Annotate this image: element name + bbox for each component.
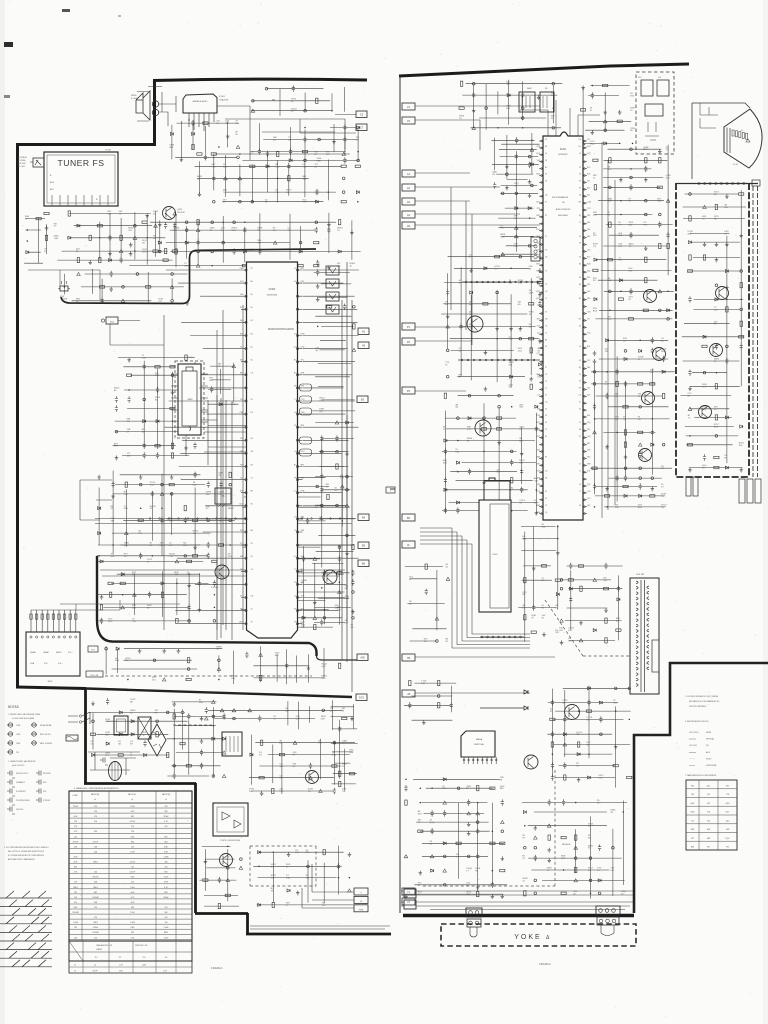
junction [211,265,213,267]
ground [614,745,618,749]
junction [616,432,618,434]
svg-text:4T6: 4T6 [587,470,590,472]
wire [300,115,356,134]
wire [243,123,359,162]
svg-text:POLIESTER: POLIESTER [16,791,26,793]
diode [443,842,446,845]
resistor [293,494,295,499]
capacitor [173,773,176,779]
svg-text:04: 04 [545,422,547,424]
diode [119,733,122,736]
wire [251,87,344,116]
svg-text:FIGURA 2: FIGURA 2 [539,963,551,966]
junction [606,371,608,373]
svg-text:SAIDA DE AUDIO: SAIDA DE AUDIO [192,100,208,103]
svg-text:R801: R801 [73,887,77,889]
resistor [497,428,502,430]
junction [600,733,603,736]
junction [553,107,555,109]
junction [437,695,440,698]
junction [501,192,504,195]
svg-text:V13: V13 [587,360,590,362]
capacitor [658,221,661,227]
junction [593,371,596,374]
speaker terminals [152,101,158,107]
resistor [497,417,502,419]
ground [129,243,133,247]
resistor [272,902,274,907]
junction [176,583,178,585]
connector A4 [402,211,415,218]
junction [609,290,612,293]
svg-text:08: 08 [579,174,581,176]
junction [353,306,356,309]
capacitor [343,136,346,142]
diode [606,339,609,342]
resistor [551,742,553,747]
capacitor [191,120,194,126]
capacitor [688,296,691,302]
svg-text:VALOR (L): VALOR (L) [128,793,137,796]
resistor [568,579,573,581]
junction [612,846,615,849]
capacitor [688,370,691,376]
resistor [170,407,175,409]
diode [639,349,642,352]
junction [667,318,670,321]
svg-text:PTC: PTC [638,77,642,79]
connector A3 [402,198,415,205]
ground [538,268,542,272]
diode [617,598,620,601]
svg-text:1N4148: 1N4148 [92,932,98,934]
junction [436,640,439,643]
capacitor [551,774,554,780]
keyboard pull resistors [30,614,32,619]
ground [180,157,184,161]
tuner TU101 inner [47,155,115,203]
junction [726,299,728,301]
svg-text:B04: B04 [587,346,590,348]
capacitor [258,148,261,154]
diode [468,417,471,420]
capacitor [351,579,354,585]
svg-text:B75: B75 [587,167,590,169]
resistor [155,366,160,368]
svg-text:B9: B9 [579,298,581,300]
warning triangle [338,590,342,593]
warning triangle [658,290,662,293]
svg-text:C5R: C5R [142,358,147,360]
diode [593,629,596,632]
capacitor [212,175,215,181]
svg-text:T92: T92 [726,847,729,849]
junction [171,273,174,276]
svg-text:121: 121 [537,332,540,334]
junction [338,546,341,549]
wire [234,646,325,684]
capacitor [598,845,601,851]
svg-text:1DK: 1DK [301,556,306,558]
diode [563,733,566,736]
svg-text:uF: uF [94,799,96,801]
ground [307,666,311,670]
junction [651,477,654,480]
svg-text:pF/uF V=VOLTS: pF/uF V=VOLTS [12,765,25,767]
left board outline top [153,79,367,80]
warning triangle [273,241,277,244]
junction [227,846,229,848]
svg-text:APROVADOS PELO FABRICANTE: APROVADOS PELO FABRICANTE [8,858,35,861]
svg-text:V1: V1 [74,965,76,967]
svg-text:V6B: V6B [506,108,511,110]
capacitor [184,517,187,523]
junction [492,870,494,872]
warning triangle [345,504,349,507]
warning triangle [313,557,317,560]
diode [470,291,473,294]
resistor [477,786,479,791]
warning triangle [154,224,158,227]
capacitor [101,298,104,304]
capacitor [456,507,459,513]
junction [594,506,596,508]
svg-text:K5V: K5V [613,703,618,705]
capacitor [629,232,632,238]
resistor [667,243,669,248]
ground [619,178,623,182]
junction [237,156,240,159]
svg-text:A05: A05 [360,657,365,660]
svg-text:8K2: 8K2 [164,841,167,843]
resistor [109,592,111,597]
resistor [578,565,583,567]
ground [170,475,174,479]
junction [352,617,355,620]
diode [116,647,119,650]
resistor [739,336,744,338]
svg-text:QCR: QCR [142,252,147,254]
diode [619,279,622,282]
wire [317,656,358,660]
diode [109,259,112,262]
right board outline top [399,64,689,76]
svg-text:7Q: 7Q [588,848,591,850]
svg-text:DEFLEXAO: DEFLEXAO [558,214,569,217]
svg-text:7Q: 7Q [661,507,664,509]
warning triangle [222,751,226,754]
ground [725,242,729,246]
capacitor [258,715,261,721]
capacitor [139,553,142,559]
bus dotted 2 [458,359,540,361]
resistor [194,429,196,434]
svg-text:V1: V1 [741,130,743,132]
wire [590,340,674,507]
junction [92,720,95,723]
keyboard S302 box [26,632,80,676]
svg-text:CERAMICO: CERAMICO [16,781,26,784]
ground [509,327,513,331]
capacitor [320,619,323,625]
junction [420,802,422,804]
ground [484,387,488,391]
junction [27,240,29,242]
resistor [529,303,534,305]
svg-text:7. PARA VERSOES DE COMPONENTES: 7. PARA VERSOES DE COMPONENTES [685,774,717,777]
connector P3 [402,387,415,394]
svg-text:3. OS COMPONENTES IDENTIFICADO: 3. OS COMPONENTES IDENTIFICADOS PELO SIM… [4,846,49,849]
svg-text:R801: R801 [93,862,97,864]
junction [153,659,156,662]
margin tick [4,42,13,47]
svg-text:K=1000 OHMS M=1M OHMS: K=1000 OHMS M=1M OHMS [12,718,35,720]
warning triangle [348,889,352,892]
svg-text:114: 114 [707,794,710,796]
capacitor [264,606,267,612]
svg-text:CDC: CDC [239,504,244,506]
warning triangle [530,148,534,151]
ground [715,258,719,262]
wire bus B [86,689,352,698]
junction [115,430,118,433]
wire [80,480,112,520]
diode [577,753,580,756]
wire [522,801,627,899]
ground [644,246,648,250]
svg-text:785: 785 [537,284,540,286]
wire [148,87,176,127]
junction [321,504,324,507]
junction [127,679,128,681]
svg-text:S302: S302 [48,681,54,683]
resistor [339,781,341,786]
capacitor [444,448,447,454]
svg-text:R63: R63 [691,847,694,849]
diode [444,488,447,491]
ground [111,494,115,498]
svg-text:SER MEDIDOS COM O APARELHO NO: SER MEDIDOS COM O APARELHO NO [689,700,720,703]
diode [624,358,627,361]
wire [241,545,345,628]
svg-text:06B: 06B [509,364,513,366]
svg-text:6. IDENTIFICACAO DOS FIOS: 6. IDENTIFICACAO DOS FIOS [685,720,709,723]
key switch S303 [326,292,339,301]
junction [715,284,718,287]
resistor [662,393,664,398]
svg-text:9RC: 9RC [607,169,612,171]
resistor [481,428,486,430]
junction [105,647,108,650]
ground [193,545,197,549]
svg-text:VKQ: VKQ [590,143,595,145]
capacitor [260,494,263,500]
junction [194,420,197,423]
resistor [657,186,662,188]
svg-text:V2: V2 [579,484,581,486]
svg-text:330: 330 [131,932,134,934]
junction [173,765,176,768]
svg-text:SAO CRITICOS. DEVEM SER SUBSTI: SAO CRITICOS. DEVEM SER SUBSTITUIDOS [8,850,45,853]
resistor [561,892,566,894]
resistor [108,582,113,584]
svg-text:VOL+: VOL+ [58,663,63,665]
svg-text:POLIPROPILENO: POLIPROPILENO [16,800,30,802]
resistor [605,618,607,623]
svg-text:120: 120 [94,821,97,823]
svg-text:17: 17 [294,399,296,401]
junction [134,224,137,227]
svg-text:26R: 26R [301,373,305,375]
ground [484,350,488,354]
resistor [524,578,526,583]
diode [316,200,319,203]
warning triangle [581,142,585,145]
junction [497,127,499,129]
resistor [444,393,446,398]
junction [609,310,611,312]
diode [484,267,487,270]
warning triangle [446,577,450,580]
resistor [155,445,160,447]
diode [131,720,134,723]
svg-text:65: 65 [251,294,253,296]
ground [703,242,707,246]
capacitor [250,589,253,595]
yoke wires [416,891,633,910]
wire [442,396,539,515]
svg-text:B8: B8 [545,339,547,341]
connector -30 [402,690,415,697]
svg-text:oooooo: oooooo [689,739,697,741]
resistor [605,495,610,497]
resistor [550,718,555,720]
junction [213,200,216,203]
svg-text:96B: 96B [302,178,306,180]
junction [139,483,142,486]
junction [346,475,349,478]
capacitor [120,257,123,263]
svg-text:100: 100 [165,922,168,924]
left board outline drop [84,688,87,783]
resistor [352,545,354,550]
junction [304,109,307,112]
double rail right [753,186,758,477]
wire long rows [95,519,356,577]
ground [644,178,648,182]
junction [630,148,633,151]
svg-text:D3: D3 [579,277,581,279]
diode [223,737,226,740]
wire dashed [545,600,630,656]
ground [97,475,101,479]
junction [307,865,310,868]
warning triangle [217,667,221,670]
warning triangle [501,253,505,256]
diode [523,811,526,814]
resistor [203,879,208,881]
diode [212,737,215,740]
ground [419,871,423,875]
capacitor [551,762,554,768]
junction [589,857,592,860]
capacitor [587,699,590,705]
junction [498,394,501,397]
svg-text:QCR: QCR [536,298,541,300]
ground [725,285,729,289]
diode [185,241,188,244]
svg-text:054: 054 [537,450,540,452]
resistor [272,788,274,793]
ground [542,632,546,636]
degauss dashed box [636,72,674,154]
resistor [45,235,47,240]
svg-text:=====: ===== [689,765,696,767]
wire [462,80,562,130]
resistor [99,258,101,263]
resistor [715,204,717,209]
hatch pattern [0,891,52,967]
capacitor [315,189,318,195]
svg-text:R5: R5 [251,464,253,466]
svg-text:R31: R31 [537,319,540,321]
svg-text:127: 127 [119,957,122,959]
diode [598,879,601,882]
junction [357,159,360,162]
svg-text:Q5: Q5 [545,257,547,259]
wire bus vertical [342,262,352,692]
svg-text:MENU: MENU [56,652,62,654]
resistor [495,256,500,258]
resistor [339,771,341,776]
ground [139,475,143,479]
junction [716,372,718,374]
resistor [659,158,661,163]
svg-text:QRR: QRR [529,293,534,295]
svg-text:V1B: V1B [319,519,324,521]
junction [740,270,743,273]
warning triangle [515,235,519,238]
ground [538,293,542,297]
ground [593,351,597,355]
svg-text:862: 862 [537,243,540,245]
junction [172,420,174,422]
svg-text:OOOOO: OOOOO [689,745,697,747]
wire [404,779,507,894]
wire [88,752,140,775]
IC303 pins [241,270,303,624]
svg-text:4Q0: 4Q0 [726,820,729,822]
resistor [650,383,655,385]
ground [129,252,133,256]
regulator block PONTE [213,803,248,836]
capacitor [444,477,447,483]
resistor [170,366,175,368]
resistor [211,153,216,155]
resistor [714,466,719,468]
ground [313,600,317,604]
resistor [90,733,95,735]
warning triangle [170,285,174,288]
resistor [265,589,267,594]
svg-text:57: 57 [545,395,547,397]
svg-text:7DD: 7DD [534,480,539,482]
junction [299,241,302,244]
capacitor [207,481,210,487]
resistor [298,264,303,266]
ground [482,480,486,484]
svg-text:QRT: QRT [105,734,110,736]
